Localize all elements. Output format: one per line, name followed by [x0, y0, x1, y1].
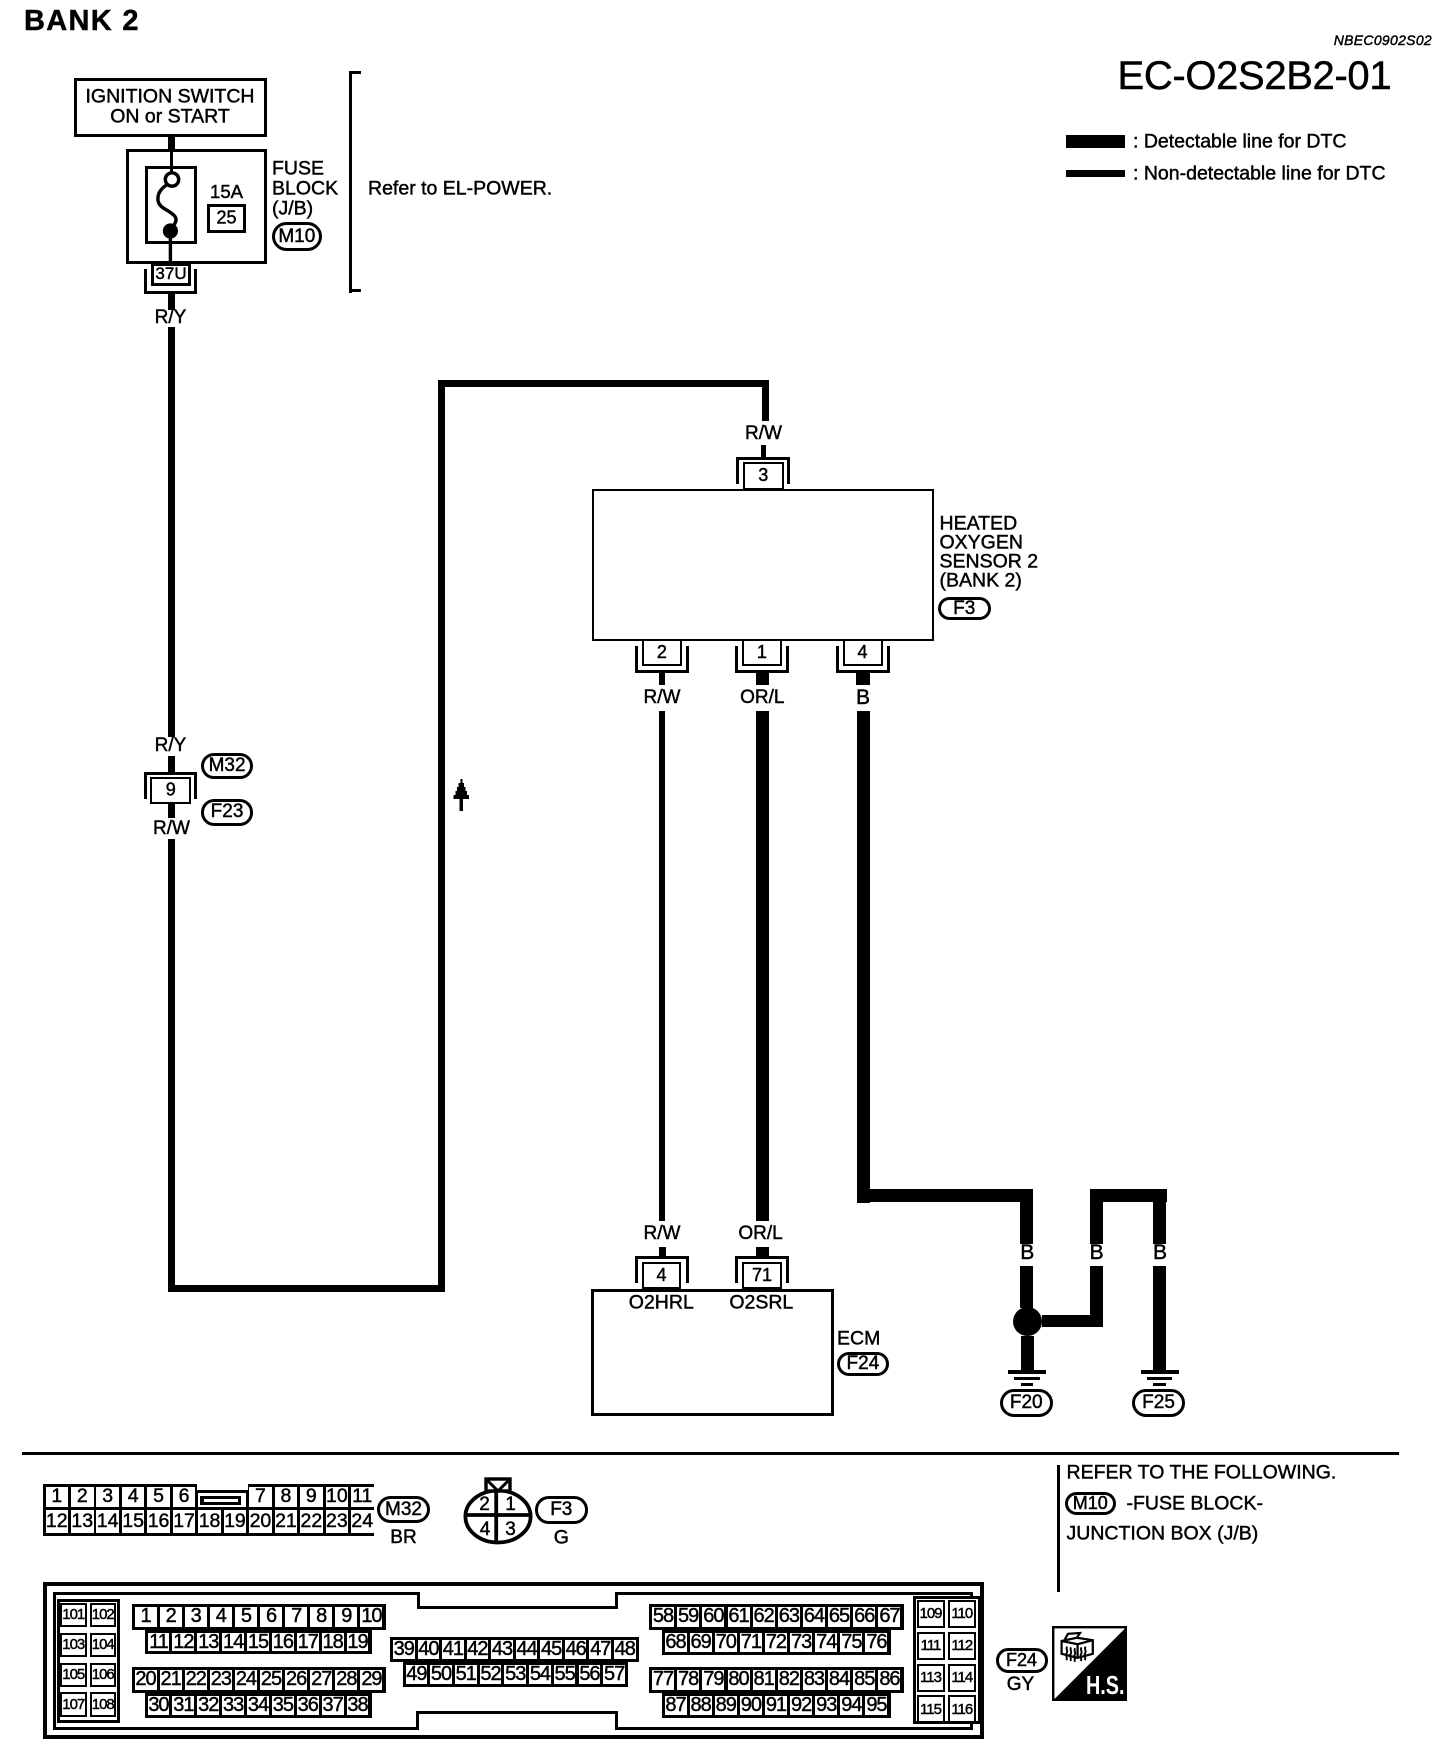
svg-text:H.S.: H.S. [1086, 1670, 1125, 1700]
